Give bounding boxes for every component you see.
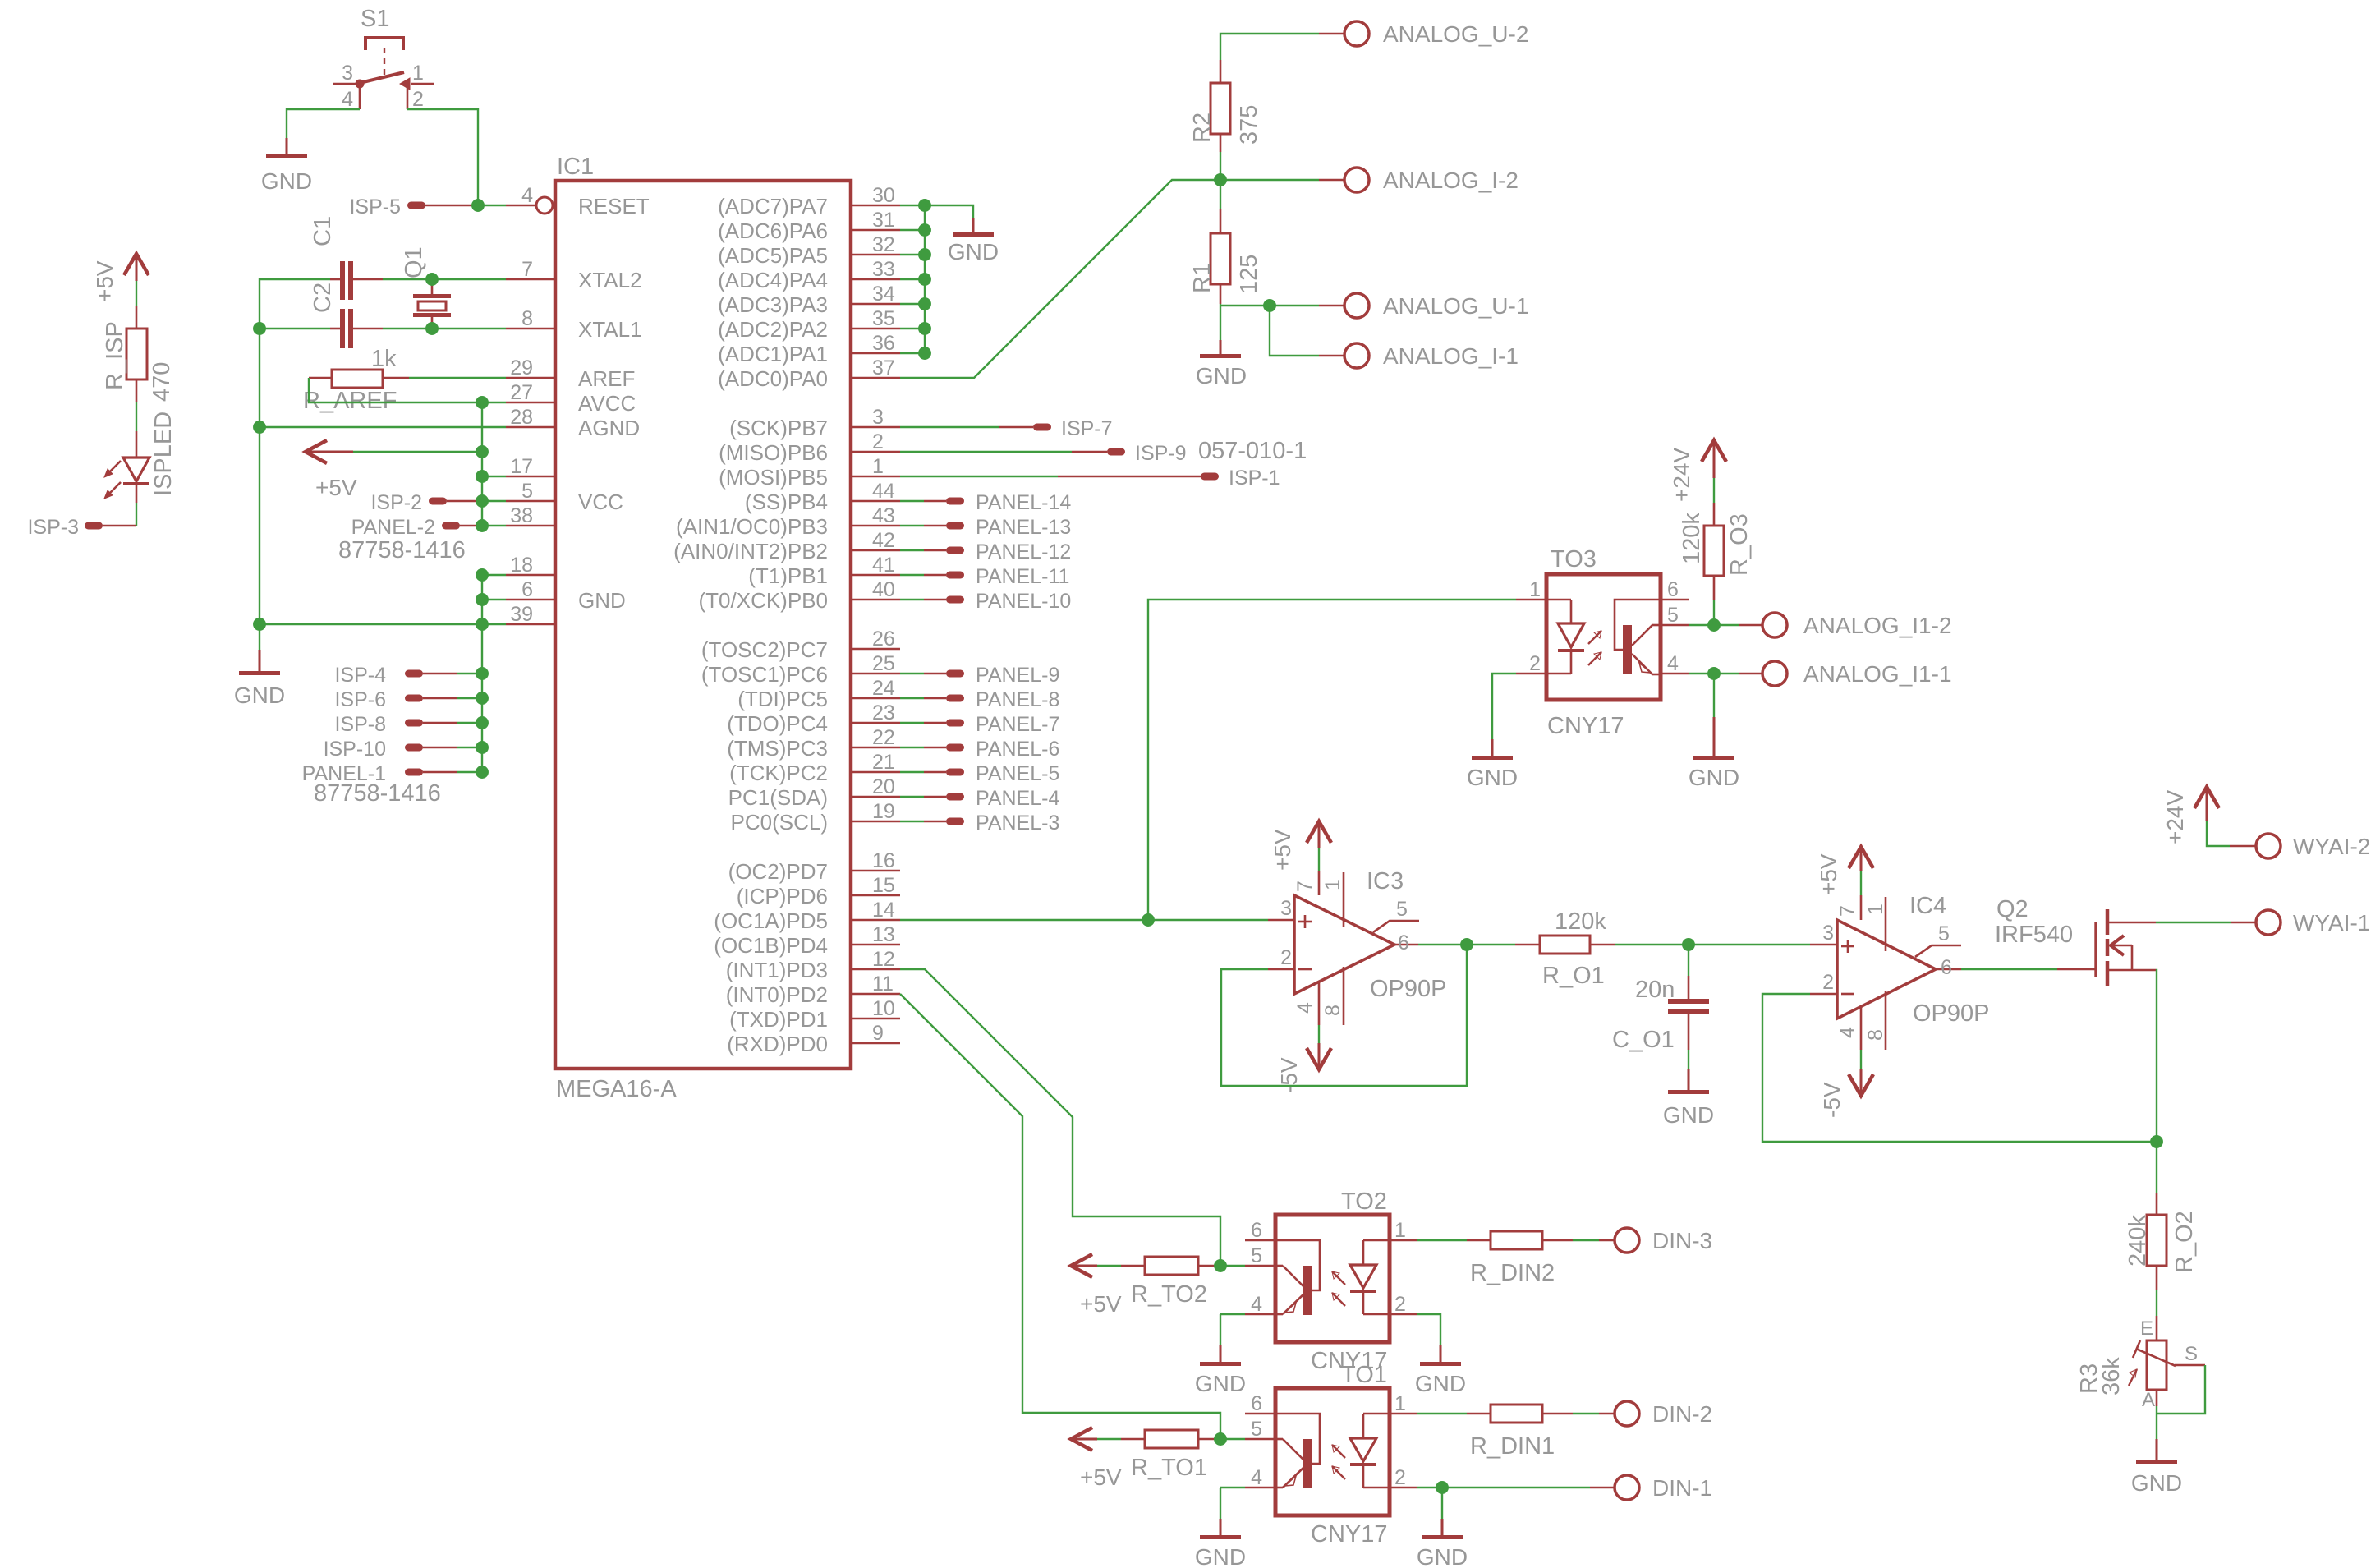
svg-text:42: 42 <box>872 529 895 552</box>
connector pad ANALOG_I1-2 <box>1762 613 1952 638</box>
wire R1 to ANALOG_U-1 / GND <box>1220 304 1221 340</box>
svg-text:(TDI)PC5: (TDI)PC5 <box>737 687 828 711</box>
wire PA bus to GND <box>925 205 973 218</box>
TO3 internal phototransistor <box>1615 600 1661 674</box>
svg-text:5: 5 <box>1667 604 1679 627</box>
svg-text:GND: GND <box>261 168 312 194</box>
wire IC4 feedback loop <box>1762 994 2157 1142</box>
svg-text:120k: 120k <box>1555 908 1606 935</box>
svg-text:ANALOG_I1-1: ANALOG_I1-1 <box>1803 661 1952 687</box>
svg-text:14: 14 <box>872 899 895 922</box>
svg-text:CNY17: CNY17 <box>1311 1521 1388 1547</box>
power +5V symbol (IC3) <box>1270 821 1331 871</box>
IC1 pin 29 AREF <box>506 356 635 391</box>
svg-text:21: 21 <box>872 751 895 774</box>
TO2 pin 1 <box>1390 1219 1417 1242</box>
power +24V symbol (R_O3) <box>1669 440 1726 502</box>
svg-text:10: 10 <box>872 997 895 1020</box>
power +5V symbol (ISPLED) <box>92 254 149 302</box>
svg-text:(ADC2)PA2: (ADC2)PA2 <box>718 317 828 342</box>
svg-text:6: 6 <box>1398 931 1409 954</box>
svg-text:120k: 120k <box>1679 513 1705 564</box>
svg-text:5: 5 <box>1938 922 1950 945</box>
svg-text:XTAL1: XTAL1 <box>578 317 642 342</box>
ground symbol GND (left rail) <box>234 624 285 708</box>
wire Q2 drain to WYAI-1 <box>2156 922 2231 923</box>
resistor R_O2 240k <box>2125 1193 2198 1290</box>
svg-text:ISP-4: ISP-4 <box>334 664 386 687</box>
svg-text:PANEL-10: PANEL-10 <box>976 590 1071 613</box>
TO2 pin 6 <box>1245 1219 1275 1242</box>
svg-text:87758-1416: 87758-1416 <box>314 780 441 807</box>
svg-text:7: 7 <box>521 258 533 281</box>
svg-text:GND: GND <box>234 683 285 708</box>
svg-text:AVCC: AVCC <box>578 391 636 416</box>
svg-text:(ADC3)PA3: (ADC3)PA3 <box>718 292 828 317</box>
svg-text:8: 8 <box>1321 1005 1344 1016</box>
label PANEL-10 stub <box>946 590 1071 613</box>
svg-text:(T1)PB1: (T1)PB1 <box>748 563 828 588</box>
svg-text:(ADC6)PA6: (ADC6)PA6 <box>718 218 828 243</box>
svg-text:ANALOG_I1-2: ANALOG_I1-2 <box>1803 613 1952 638</box>
svg-text:3: 3 <box>1822 922 1834 945</box>
svg-text:CNY17: CNY17 <box>1547 713 1624 739</box>
svg-text:41: 41 <box>872 554 895 577</box>
TO3 pin 6 <box>1661 578 1689 601</box>
junction TO3 pin5 R_O3 <box>1708 619 1720 631</box>
connector pad ANALOG_I-1 <box>1344 343 1519 369</box>
wire ISP-10 to GND bus <box>457 747 482 748</box>
IC1 pin 36 (ADC1)PA1 <box>718 332 900 366</box>
svg-text:2: 2 <box>1280 946 1292 969</box>
svg-text:+5V: +5V <box>92 260 117 302</box>
svg-text:GND: GND <box>1415 1371 1466 1396</box>
TO1 internal LED <box>1350 1414 1390 1488</box>
svg-text:Q1: Q1 <box>401 246 427 278</box>
connector pad ANALOG_I1-1 <box>1762 661 1952 687</box>
svg-text:(AIN0/INT2)PB2: (AIN0/INT2)PB2 <box>673 539 828 563</box>
junction GND bus pin18 <box>476 569 488 581</box>
wire R_TO1 junction to TO1 pin5 <box>1220 1438 1245 1440</box>
label PANEL-9 stub <box>946 664 1059 687</box>
junction GND bus pin6 <box>476 594 488 605</box>
svg-text:32: 32 <box>872 233 895 256</box>
resistor R_DIN2 <box>1467 1231 1573 1286</box>
svg-text:AGND: AGND <box>578 416 640 440</box>
svg-text:(OC1A)PD5: (OC1A)PD5 <box>714 908 828 933</box>
svg-text:44: 44 <box>872 480 895 503</box>
IC1 pin 27 AVCC <box>506 381 636 416</box>
wire R3 to GND <box>2156 1406 2157 1439</box>
junction VCC bus +5V <box>476 446 488 458</box>
label PANEL-4 stub <box>946 787 1059 810</box>
svg-text:23: 23 <box>872 701 895 724</box>
junction C2 left <box>254 323 265 334</box>
wire PB7 to ISP-7 <box>900 426 999 428</box>
wire R_O3 to TO3 pin5 <box>1713 600 1715 625</box>
svg-text:(ADC1)PA1: (ADC1)PA1 <box>718 342 828 366</box>
IC1 pin 32 (ADC5)PA5 <box>718 233 900 268</box>
junction TO3 pin4 GND <box>1708 668 1720 679</box>
ground symbol GND (PA bus) <box>948 218 999 264</box>
ground symbol GND (TO1 left) <box>1195 1519 1246 1568</box>
TO3 pin 2 <box>1516 652 1546 675</box>
label PANEL-5 stub <box>946 762 1059 785</box>
svg-text:R_DIN1: R_DIN1 <box>1470 1433 1555 1460</box>
svg-text:6: 6 <box>521 578 533 601</box>
resistor R1 125 <box>1189 209 1262 304</box>
svg-text:ISP-8: ISP-8 <box>334 713 386 736</box>
wire ANALOG_U-2 net <box>1220 34 1319 60</box>
junction GND bus ISP-8 <box>476 717 488 729</box>
svg-text:DIN-1: DIN-1 <box>1652 1475 1712 1501</box>
resistor R2 375 <box>1189 60 1262 152</box>
wire C2 to XTAL1 <box>383 328 506 329</box>
wire PANEL-7 <box>900 722 924 724</box>
wire PANEL-10 <box>900 599 924 600</box>
wire TO2 pin4 to GND <box>1220 1313 1245 1315</box>
IC1 pin 18 <box>506 554 555 577</box>
wire R_O1 to IC4 input <box>1615 944 1810 945</box>
TO2 internal light arrows <box>1332 1271 1345 1306</box>
ground symbol GND (R1) <box>1196 340 1247 389</box>
wire PD3 to TO2 drive <box>900 969 1220 1266</box>
svg-text:ISP-6: ISP-6 <box>334 688 386 711</box>
wire PD5 branch to TO3 pin1 <box>1148 600 1516 920</box>
svg-text:GND: GND <box>1689 765 1739 790</box>
crystal Q1 <box>401 246 451 329</box>
TO1 pin 1 <box>1390 1392 1417 1415</box>
svg-text:1: 1 <box>872 455 884 478</box>
svg-text:ISP-2: ISP-2 <box>370 491 422 514</box>
GND bus vertical <box>481 575 483 772</box>
svg-text:29: 29 <box>510 356 533 379</box>
svg-text:(ICP)PD6: (ICP)PD6 <box>737 884 828 908</box>
IC1 pin 43 (AIN1/OC0)PB3 <box>676 504 900 539</box>
svg-text:R_AREF: R_AREF <box>303 388 397 414</box>
transistor Q2 IRF540 <box>1995 896 2156 986</box>
IC1 pin 22 (TMS)PC3 <box>727 726 900 761</box>
IC1 pin 20 PC1(SDA) <box>728 775 900 810</box>
IC1 pin 34 (ADC3)PA3 <box>718 283 900 317</box>
IC1 pin 23 (TDO)PC4 <box>727 701 900 736</box>
svg-text:(OC1B)PD4: (OC1B)PD4 <box>714 933 828 958</box>
IC1 pin 10 (TXD)PD1 <box>729 997 900 1032</box>
svg-text:ISP-1: ISP-1 <box>1229 467 1280 490</box>
svg-text:(MISO)PB6: (MISO)PB6 <box>719 440 828 465</box>
resistor R_O1 120k <box>1515 908 1615 989</box>
IC1 pin 14 (OC1A)PD5 <box>714 899 900 933</box>
svg-text:16: 16 <box>872 849 895 872</box>
svg-text:1: 1 <box>1864 904 1887 915</box>
IC1 pin 6 GND <box>506 578 626 613</box>
IC1 pin 16 (OC2)PD7 <box>728 849 900 884</box>
IC1 pin 13 (OC1B)PD4 <box>714 923 900 958</box>
IC1 pin 1 (MOSI)PB5 <box>719 455 900 490</box>
connector pad ANALOG_I-2 <box>1344 168 1519 193</box>
ground symbol GND (TO3 out) <box>1689 674 1739 790</box>
svg-text:31: 31 <box>872 209 895 232</box>
LED ISPLED <box>104 412 177 503</box>
wire TO3 pin5 to ANALOG_I1-2 <box>1689 624 1739 626</box>
wire pin17 to VCC bus <box>482 476 506 477</box>
junction PA bus 310 <box>919 249 930 260</box>
IC1 pin 4 RESET <box>506 184 650 218</box>
ground symbol GND (TO2 right) <box>1415 1345 1466 1396</box>
TO3 pin 5 <box>1661 604 1689 627</box>
svg-text:87758-1416: 87758-1416 <box>338 537 466 563</box>
svg-text:36: 36 <box>872 332 895 355</box>
svg-text:(ADC5)PA5: (ADC5)PA5 <box>718 243 828 268</box>
connector pad ANALOG_U-2 <box>1344 21 1528 47</box>
wire pin18 to GND bus <box>482 574 506 576</box>
svg-text:PANEL-14: PANEL-14 <box>976 491 1071 514</box>
PA bus vertical <box>924 205 926 353</box>
svg-text:4: 4 <box>1667 652 1679 675</box>
svg-text:(TOSC2)PC7: (TOSC2)PC7 <box>701 637 828 662</box>
label PANEL-1 stub <box>302 762 457 785</box>
svg-text:(INT1)PD3: (INT1)PD3 <box>726 958 828 982</box>
label ISP-9 stub <box>1107 442 1187 465</box>
wire TO1 pin4 to GND <box>1220 1487 1245 1488</box>
wire AGND to left bus <box>260 426 506 428</box>
svg-text:6: 6 <box>1251 1219 1262 1242</box>
label PANEL-7 stub <box>946 713 1059 736</box>
svg-text:R_O3: R_O3 <box>1726 513 1753 576</box>
svg-text:R1: R1 <box>1189 263 1215 293</box>
svg-text:(TCK)PC2: (TCK)PC2 <box>729 761 828 785</box>
svg-text:3: 3 <box>1280 897 1292 920</box>
svg-text:1: 1 <box>1394 1392 1406 1415</box>
wire +5V to VCC bus <box>353 451 482 453</box>
ground symbol GND (R3) <box>2131 1439 2182 1496</box>
svg-text:ANALOG_U-2: ANALOG_U-2 <box>1383 21 1528 47</box>
svg-text:4: 4 <box>342 88 353 111</box>
svg-text:2: 2 <box>412 88 424 111</box>
resistor R_TO1 with +5V arrow <box>1071 1428 1220 1490</box>
IC1 pin 15 (ICP)PD6 <box>737 874 900 908</box>
IC1 pin 25 (TOSC1)PC6 <box>701 652 900 687</box>
svg-text:ANALOG_I-2: ANALOG_I-2 <box>1383 168 1519 193</box>
op-amp IC3 OP90P <box>1268 868 1447 1025</box>
junction RESET net <box>472 200 484 211</box>
IC1 pin 39 <box>506 603 555 626</box>
svg-text:R_ISP: R_ISP <box>102 321 128 390</box>
power -5V symbol (IC4) <box>1819 1069 1873 1118</box>
wire PANEL-1 to GND bus <box>457 771 482 773</box>
TO2 internal LED <box>1350 1240 1390 1314</box>
wire PB6 to ISP-9 <box>900 451 1072 453</box>
svg-text:33: 33 <box>872 258 895 281</box>
svg-text:DIN-3: DIN-3 <box>1652 1228 1712 1253</box>
svg-text:43: 43 <box>872 504 895 527</box>
svg-text:PC1(SDA): PC1(SDA) <box>728 785 828 810</box>
svg-text:VCC: VCC <box>578 490 623 514</box>
IC1 pin 24 (TDI)PC5 <box>737 677 900 711</box>
svg-text:Q2: Q2 <box>1996 896 2029 922</box>
svg-text:28: 28 <box>510 406 533 429</box>
wire R_AREF left to AVCC net <box>309 378 506 402</box>
wire Q2 source to feedback node <box>2156 970 2157 1142</box>
IC1 pin 31 (ADC6)PA6 <box>718 209 900 243</box>
junction PA bus 280 <box>919 224 930 236</box>
svg-text:(ADC7)PA7: (ADC7)PA7 <box>718 194 828 218</box>
wire PB5 to ISP-1 <box>900 476 1058 477</box>
junction feedback node <box>2151 1136 2162 1147</box>
svg-text:38: 38 <box>510 504 533 527</box>
svg-text:-5V: -5V <box>1276 1057 1302 1093</box>
svg-text:S: S <box>2185 1343 2198 1365</box>
svg-text:(TOSC1)PC6: (TOSC1)PC6 <box>701 662 828 687</box>
wire R_O2 to R3 <box>2156 1290 2157 1316</box>
svg-text:+5V: +5V <box>1080 1465 1122 1490</box>
svg-text:35: 35 <box>872 307 895 330</box>
svg-text:(MOSI)PB5: (MOSI)PB5 <box>719 465 828 490</box>
junction PA bus 370 <box>919 298 930 310</box>
wire TO3 pin2 to GND <box>1492 674 1516 739</box>
svg-text:40: 40 <box>872 578 895 601</box>
svg-text:(TMS)PC3: (TMS)PC3 <box>727 736 828 761</box>
svg-text:18: 18 <box>510 554 533 577</box>
ground symbol GND (S1) <box>261 138 312 194</box>
svg-text:6: 6 <box>1251 1392 1262 1415</box>
svg-text:(ADC0)PA0: (ADC0)PA0 <box>718 366 828 391</box>
svg-text:PANEL-13: PANEL-13 <box>976 516 1071 539</box>
wire PANEL-2 to pin38 <box>460 525 480 527</box>
svg-text:C1: C1 <box>310 216 336 246</box>
TO2 pin 5 <box>1245 1244 1275 1267</box>
junction Q1 bottom <box>426 323 438 334</box>
label PANEL-14 stub <box>946 491 1071 514</box>
resistor R_AREF 1k <box>303 346 409 414</box>
IC1 pin 35 (ADC2)PA2 <box>718 307 900 342</box>
resistor R_O3 120k <box>1679 503 1753 600</box>
IC1 pin 11 (INT0)PD2 <box>726 973 900 1007</box>
svg-text:R_O1: R_O1 <box>1542 963 1605 989</box>
power +5V symbol (VCC bus) <box>306 440 357 500</box>
IC1 pin 3 (SCK)PB7 <box>729 406 900 440</box>
svg-text:470: 470 <box>149 362 175 402</box>
label PANEL-3 stub <box>946 812 1059 835</box>
wire R_AREF to AREF pin <box>409 377 506 379</box>
svg-text:ISPLED: ISPLED <box>150 412 177 496</box>
junction PD5 branch <box>1142 914 1154 926</box>
IC1 pin 40 (T0/XCK)PB0 <box>699 578 901 613</box>
svg-text:+5V: +5V <box>1080 1291 1122 1317</box>
svg-text:ISP-5: ISP-5 <box>349 195 401 218</box>
TO3 internal LED <box>1546 600 1584 674</box>
svg-text:25: 25 <box>872 652 895 675</box>
svg-text:S1: S1 <box>361 6 389 32</box>
wire +24V to WYAI-2 <box>2207 821 2230 846</box>
svg-text:R2: R2 <box>1189 113 1215 143</box>
wire IC4 pin4 to -5V <box>1860 1050 1862 1069</box>
svg-text:5: 5 <box>521 480 533 503</box>
wire pin39 / GND rail <box>260 623 506 625</box>
wire PANEL-3 <box>900 821 924 822</box>
wire ISP-2 to VCC pin5 <box>447 500 480 503</box>
op-amp IC4 OP90P <box>1810 893 1990 1050</box>
wire ISPLED to ISP-3 <box>136 503 137 526</box>
svg-text:IC3: IC3 <box>1367 868 1404 894</box>
svg-text:8: 8 <box>1864 1029 1887 1041</box>
svg-text:(OC2)PD7: (OC2)PD7 <box>728 859 828 884</box>
svg-text:22: 22 <box>872 726 895 749</box>
svg-text:12: 12 <box>872 948 895 971</box>
TO2 pin 4 <box>1245 1293 1275 1316</box>
capacitor C1 <box>310 216 383 300</box>
label ISP-8 stub <box>334 713 457 736</box>
power -5V symbol (IC3) <box>1276 1043 1331 1093</box>
IC1 pin 41 (T1)PB1 <box>748 554 900 588</box>
junction VCC bus pin38 <box>476 520 488 531</box>
svg-text:1: 1 <box>412 62 424 85</box>
capacitor C2 <box>310 283 383 348</box>
svg-text:-5V: -5V <box>1819 1082 1845 1118</box>
svg-text:IC1: IC1 <box>557 154 594 180</box>
svg-text:+24V: +24V <box>1669 448 1694 502</box>
wire TO1 pin2 to DIN-1 <box>1417 1487 1590 1488</box>
power +24V symbol (WYAI-2) <box>2162 787 2219 844</box>
svg-text:5: 5 <box>1251 1244 1262 1267</box>
svg-text:ISP-9: ISP-9 <box>1135 442 1187 465</box>
svg-text:C2: C2 <box>310 283 336 313</box>
wire R3 wiper loop <box>2157 1365 2205 1414</box>
svg-text:13: 13 <box>872 923 895 946</box>
svg-text:17: 17 <box>510 455 533 478</box>
TO1 pin 2 <box>1390 1466 1417 1489</box>
wire DIN-1 node to GND <box>1441 1488 1443 1519</box>
svg-text:+5V: +5V <box>1270 829 1295 871</box>
svg-text:36k: 36k <box>2098 1357 2125 1396</box>
svg-text:WYAI-1: WYAI-1 <box>2293 910 2370 936</box>
label PANEL-8 stub <box>946 688 1059 711</box>
svg-text:4: 4 <box>521 184 533 207</box>
IC1 pin 28 AGND <box>506 406 640 440</box>
junction TO2 pin5 <box>1215 1260 1226 1271</box>
resistor R_ISP 470 <box>102 306 175 402</box>
svg-text:TO3: TO3 <box>1551 546 1597 572</box>
wire TO1 pin1 to R_DIN1 <box>1417 1413 1467 1414</box>
junction PA bus 400 <box>919 323 930 334</box>
junction GND bus ISP-6 <box>476 692 488 704</box>
svg-text:(RXD)PD0: (RXD)PD0 <box>727 1032 828 1056</box>
svg-text:(AIN1/OC0)PB3: (AIN1/OC0)PB3 <box>676 514 828 539</box>
TO3 pin 1 <box>1516 578 1546 601</box>
svg-text:+5V: +5V <box>315 475 357 500</box>
switch S1 <box>333 6 434 111</box>
svg-text:2: 2 <box>1822 971 1834 994</box>
wire IC4 output to Q2 gate <box>1961 968 2057 970</box>
wire PANEL-13 <box>900 525 924 526</box>
wire +5V to R_ISP <box>136 281 137 306</box>
svg-text:(T0/XCK)PB0: (T0/XCK)PB0 <box>699 588 829 613</box>
label PANEL-12 stub <box>946 540 1071 563</box>
svg-text:PANEL-7: PANEL-7 <box>976 713 1059 736</box>
wire TO2 pin2 to GND <box>1417 1314 1440 1345</box>
label ISP-3 stub <box>27 516 136 539</box>
junction GND bus ISP-4 <box>476 668 488 679</box>
wire ISP-6 to GND bus <box>457 697 482 699</box>
wire PANEL-12 <box>900 549 924 551</box>
wire R_DIN1 to DIN-2 <box>1573 1413 1599 1414</box>
TO3 internal light arrows <box>1588 631 1601 665</box>
label ISP-10 stub <box>324 738 457 761</box>
label ISP-4 stub <box>334 664 457 687</box>
svg-text:1: 1 <box>1321 879 1344 890</box>
svg-text:MEGA16-A: MEGA16-A <box>556 1076 677 1102</box>
svg-text:IRF540: IRF540 <box>1995 922 2073 948</box>
